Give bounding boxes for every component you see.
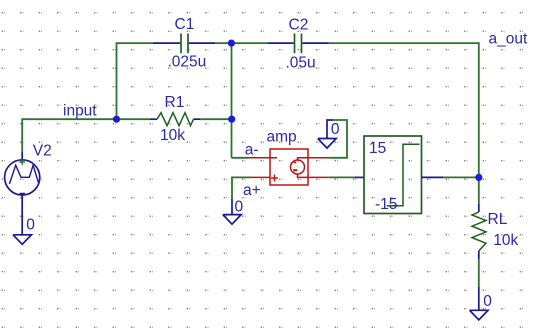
svg-text:0: 0 [235,199,244,216]
svg-text:input: input [63,103,97,120]
svg-text:a+: a+ [243,182,261,199]
svg-text:0: 0 [483,293,492,310]
svg-text:-15: -15 [375,196,397,213]
svg-text:C2: C2 [289,17,309,34]
svg-text:0: 0 [331,121,340,138]
svg-text:R1: R1 [165,94,185,111]
svg-text:a-: a- [245,141,259,158]
svg-text:0: 0 [26,216,35,233]
svg-text:15: 15 [369,140,386,157]
svg-text:amp: amp [267,128,297,145]
svg-text:10k: 10k [493,232,518,249]
svg-text:RL: RL [488,211,508,228]
svg-text:.025u: .025u [168,53,207,70]
svg-text:a_out: a_out [489,30,528,47]
svg-text:V2: V2 [33,143,52,160]
svg-text:C1: C1 [175,16,195,33]
svg-text:.05u: .05u [286,54,316,71]
svg-text:10k: 10k [160,127,185,144]
